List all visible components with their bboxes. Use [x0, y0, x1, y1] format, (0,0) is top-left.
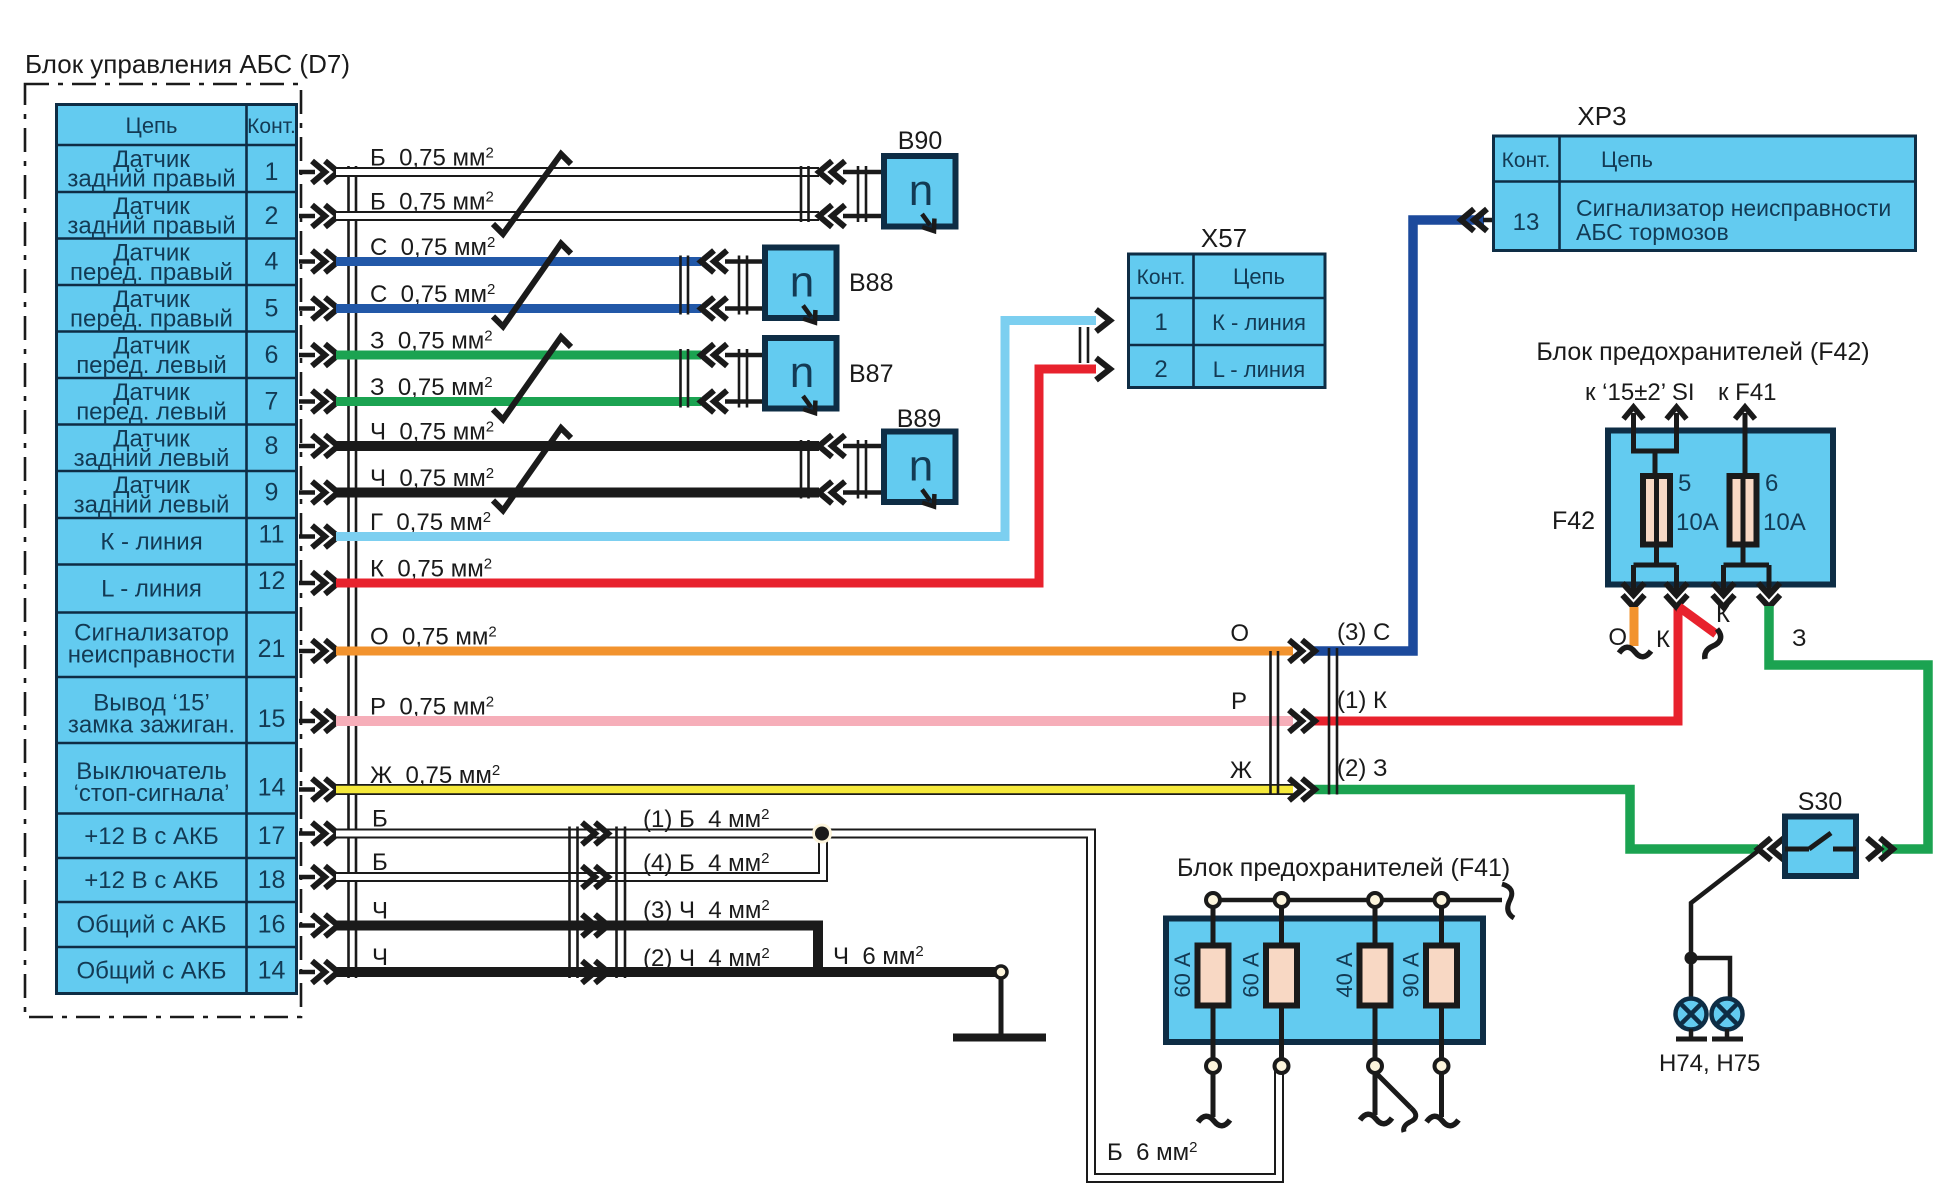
F42 top bracket fuse5 [1631, 449, 1679, 454]
svg-text:к F41: к F41 [1718, 379, 1777, 406]
D7 row Датчик pin 8 [74, 426, 279, 473]
svg-text:Ж: Ж [1230, 757, 1252, 784]
D7 row +12 В с АКБ pin 18 [84, 866, 285, 894]
output arrow pin row 8 [299, 490, 315, 495]
twisted pair mark B88 wires [493, 244, 571, 327]
wire from S30 to lamps [1691, 851, 1758, 958]
ABS control unit D7 dashed boundary [25, 84, 301, 1017]
wheel speed sensor B89 [801, 432, 956, 511]
F41 bottom terminal 4 [1435, 1059, 1449, 1073]
F42 down arrow out3 [1713, 595, 1735, 607]
F41 bottom terminal 1 [1206, 1059, 1220, 1073]
svg-text:перед. левый: перед. левый [76, 352, 227, 379]
svg-text:18: 18 [258, 866, 286, 894]
wire Б pin17 (1) [336, 834, 1279, 1179]
svg-text:Конт.: Конт. [247, 115, 296, 138]
svg-text:Конт.: Конт. [1137, 266, 1186, 289]
output arrow pin row 14 [299, 831, 315, 836]
svg-text:С 0,75 мм2: С 0,75 мм2 [370, 281, 495, 308]
F42 fuse box body [1608, 431, 1833, 585]
svg-text:L - линия: L - линия [101, 576, 202, 603]
D7 row Вывод &#8216;15&#8217; pin 15 [68, 690, 286, 739]
D7 row Датчик pin 7 [76, 379, 278, 426]
F42 up arrow 3 to F41 [1735, 407, 1755, 419]
svg-text:к ‘15±2’ SI: к ‘15±2’ SI [1585, 379, 1695, 406]
wire Р pin15 [336, 716, 1293, 726]
mid connector arrows row15 [1289, 710, 1302, 732]
output arrow pin row 17 [299, 970, 315, 975]
output arrow pin row 1 [299, 170, 315, 175]
svg-text:5: 5 [1678, 470, 1691, 497]
D7 row Датчик pin 5 [70, 286, 278, 333]
X57 connector bars [1079, 327, 1082, 363]
svg-text:H74, H75: H74, H75 [1659, 1050, 1760, 1077]
svg-text:14: 14 [258, 956, 286, 984]
D7 row L - линия pin 12 [101, 567, 285, 603]
svg-text:З: З [1792, 625, 1807, 652]
svg-text:21: 21 [258, 635, 286, 663]
svg-text:n: n [909, 442, 933, 491]
mid connector arrows row21 [1289, 640, 1302, 662]
svg-text:Б: Б [372, 806, 388, 833]
D7 row Общий с АКБ pin 14 [76, 956, 285, 984]
svg-text:Ч 6 мм2: Ч 6 мм2 [833, 943, 924, 970]
svg-text:n: n [790, 348, 814, 397]
harness bars mid-right rows14-17 [615, 827, 618, 979]
svg-text:(2) З: (2) З [1337, 755, 1388, 782]
mid arrow row 16 [582, 915, 595, 937]
svg-text:Блок предохранителей (F42): Блок предохранителей (F42) [1536, 338, 1869, 366]
F41 fuse3 branch diagonal [1377, 1074, 1411, 1108]
D7 row +12 В с АКБ pin 17 [84, 822, 285, 850]
svg-text:60 А: 60 А [1239, 952, 1264, 998]
svg-text:(3) Ч 4 мм2: (3) Ч 4 мм2 [643, 897, 770, 924]
wire Г K-line pin11 [336, 321, 1096, 537]
svg-text:Р: Р [1231, 688, 1247, 715]
harness connector bars at D7 outputs [347, 166, 350, 978]
output arrow pin row 7 [299, 444, 315, 449]
svg-text:Цепь: Цепь [126, 113, 178, 138]
output arrow pin row 4 [299, 306, 315, 311]
svg-text:10А: 10А [1763, 509, 1806, 536]
output arrow pin row 9 [299, 534, 315, 539]
D7 row Датчик pin 2 [67, 193, 278, 240]
svg-text:1: 1 [265, 158, 279, 186]
svg-text:5: 5 [265, 295, 279, 323]
svg-text:К - линия: К - линия [1212, 310, 1306, 335]
svg-text:Конт.: Конт. [1502, 149, 1551, 172]
svg-text:перед. правый: перед. правый [70, 306, 233, 333]
lamp branch junction dot [1685, 952, 1698, 965]
svg-text:11: 11 [259, 521, 285, 549]
svg-text:n: n [790, 258, 814, 307]
cut squiggle under orange stub [1619, 647, 1651, 657]
wire К L-line pin12 [336, 369, 1096, 583]
wire З pin7 to B87 [336, 397, 701, 406]
wheel speed sensor B88 [681, 248, 837, 327]
lamp H75 [1712, 999, 1743, 1030]
twisted pair mark B89 wires [493, 428, 571, 511]
svg-text:Х57: Х57 [1201, 223, 1247, 253]
F42 down arrow out4 [1758, 595, 1780, 607]
F42 bottom bracket fuse5 [1654, 544, 1659, 565]
svg-text:С 0,75 мм2: С 0,75 мм2 [370, 234, 495, 261]
X57 connector table [1129, 254, 1326, 388]
svg-text:Б: Б [372, 849, 388, 876]
svg-text:Ч: Ч [372, 898, 388, 925]
F41 fuse1 tail and cut [1211, 1073, 1216, 1117]
svg-text:О 0,75 мм2: О 0,75 мм2 [370, 624, 497, 651]
svg-text:4: 4 [265, 248, 279, 276]
output arrow pin row 16 [299, 923, 315, 928]
ground terminal circle [995, 966, 1007, 978]
output arrow pin row 11 [299, 649, 315, 654]
S30 switch contacts [1785, 847, 1809, 852]
svg-text:60 А: 60 А [1170, 952, 1195, 998]
svg-text:B87: B87 [849, 360, 893, 388]
wire Ч pin16 (3) [336, 926, 818, 973]
D7 row Датчик pin 4 [70, 240, 279, 287]
fuse F42-6 10A [1730, 476, 1757, 545]
svg-text:6: 6 [265, 341, 279, 369]
D7 row Выключатель pin 14 [74, 758, 286, 807]
wire Б pin1 to B90 [336, 167, 819, 177]
D7 row Общий с АКБ pin 16 [76, 911, 285, 939]
svg-text:ХР3: ХР3 [1577, 101, 1626, 131]
wire (2) З to S30 [1313, 790, 1758, 850]
svg-text:задний правый: задний правый [67, 166, 235, 193]
svg-text:9: 9 [265, 479, 279, 507]
svg-text:(1) К: (1) К [1337, 687, 1387, 714]
svg-text:14: 14 [258, 774, 286, 802]
lamp H75 ground [1725, 1029, 1730, 1039]
svg-text:2: 2 [1154, 356, 1167, 383]
svg-text:B90: B90 [898, 127, 942, 155]
output arrow pin row 5 [299, 353, 315, 358]
F42 down arrow out2 [1666, 595, 1688, 607]
svg-text:Блок управления АБС (D7): Блок управления АБС (D7) [25, 49, 350, 79]
wire Б pin18 (4) [336, 838, 823, 878]
svg-text:Б 6 мм2: Б 6 мм2 [1107, 1139, 1197, 1166]
svg-text:7: 7 [265, 388, 279, 416]
arrow into XP3 pin13 [1461, 209, 1474, 231]
svg-text:Г 0,75 мм2: Г 0,75 мм2 [370, 509, 491, 536]
output arrow pin row 13 [299, 787, 315, 792]
S30 switch box [1785, 817, 1856, 877]
F42 down arrow out1 [1623, 595, 1645, 607]
wire Ч pin8 to B89 [336, 441, 819, 451]
XP3 connector table [1494, 136, 1916, 251]
wire Ж pin14 [336, 784, 1293, 795]
mid arrow row 15 [582, 866, 595, 888]
svg-text:К - линия: К - линия [100, 528, 202, 555]
arrow into X57 pin2 [1096, 358, 1110, 380]
mid connector arrows row14 [1289, 779, 1302, 801]
fuse F41-1 60 А [1170, 907, 1229, 1059]
svg-text:неисправности: неисправности [68, 642, 235, 669]
wire С pin5 to B88 [336, 304, 701, 313]
svg-text:перед. правый: перед. правый [70, 259, 233, 286]
output arrow pin row 6 [299, 399, 315, 404]
wheel speed sensor B90 [801, 156, 956, 235]
mid arrow row 17 [582, 961, 595, 983]
wire Ч pin9 to B89 [336, 488, 819, 498]
svg-text:+12 В с АКБ: +12 В с АКБ [84, 823, 218, 850]
svg-text:задний правый: задний правый [67, 213, 235, 240]
F41 fuse4 tail and cut [1439, 1073, 1444, 1117]
D7 row Датчик pin 6 [76, 333, 278, 380]
junction dot Б wires [812, 824, 832, 844]
svg-text:замка зажиган.: замка зажиган. [68, 712, 235, 739]
output arrow pin row 15 [299, 875, 315, 880]
svg-text:B88: B88 [849, 269, 893, 297]
twisted pair mark B87 wires [493, 337, 571, 420]
svg-text:8: 8 [265, 432, 279, 460]
wire З pin6 to B87 [336, 351, 701, 360]
wheel speed sensor B87 [681, 338, 837, 417]
F42 up arrow 1 [1624, 407, 1644, 419]
svg-text:перед. левый: перед. левый [76, 399, 227, 426]
mid harness bars right [1328, 648, 1331, 795]
svg-text:n: n [909, 166, 933, 215]
output arrow pin row 2 [299, 214, 315, 219]
F41 bus terminal 4 [1435, 893, 1449, 907]
svg-text:6: 6 [1765, 470, 1778, 497]
svg-text:15: 15 [258, 705, 286, 733]
D7 pin table background [57, 105, 297, 994]
wire (3) С to XP3 riser [1313, 220, 1484, 651]
svg-text:S30: S30 [1798, 788, 1842, 816]
svg-text:задний левый: задний левый [74, 492, 230, 519]
fuse F41-2 60 А [1239, 907, 1298, 1059]
svg-text:+12 В с АКБ: +12 В с АКБ [84, 867, 218, 894]
svg-text:К: К [1656, 626, 1670, 653]
D7 table header labels [126, 113, 296, 138]
svg-text:К 0,75 мм2: К 0,75 мм2 [370, 556, 492, 583]
red branch diagonal fuse5 [1679, 607, 1716, 634]
F41 bus end curl [1502, 884, 1514, 918]
arrow into X57 pin1 [1096, 310, 1110, 332]
svg-text:(4) Б 4 мм2: (4) Б 4 мм2 [643, 850, 769, 877]
svg-text:О: О [1230, 620, 1249, 647]
F41 supply bus [1213, 898, 1502, 903]
wire Б pin2 to B90 [336, 211, 819, 221]
svg-text:Цепь: Цепь [1233, 264, 1285, 289]
svg-text:Ч: Ч [372, 944, 388, 971]
svg-text:З 0,75 мм2: З 0,75 мм2 [370, 374, 493, 401]
lamp H74 [1676, 999, 1707, 1030]
output arrow pin row 12 [299, 719, 315, 724]
svg-text:З 0,75 мм2: З 0,75 мм2 [370, 328, 493, 355]
fuse F42-5 10A [1643, 476, 1670, 545]
svg-text:(2) Ч 4 мм2: (2) Ч 4 мм2 [643, 945, 770, 972]
wire О pin21 [336, 647, 1293, 656]
svg-text:Сигнализатор неисправности: Сигнализатор неисправности [1576, 195, 1891, 221]
F42 bottom bracket fuse6 [1741, 544, 1746, 565]
wire С pin4 to B88 [336, 257, 701, 266]
D7 row Сигнализатор pin 21 [68, 620, 286, 669]
mid arrow row 14 [582, 823, 595, 845]
svg-text:1: 1 [1154, 309, 1167, 336]
D7 row Датчик pin 9 [74, 472, 279, 519]
arrow out of S30 right [1867, 838, 1880, 860]
svg-text:Блок предохранителей (F41): Блок предохранителей (F41) [1177, 854, 1510, 882]
D7 table grid lines [57, 105, 297, 994]
svg-text:‘стоп-сигнала’: ‘стоп-сигнала’ [74, 780, 230, 807]
F41 bus terminal 1 [1206, 893, 1220, 907]
twisted pair mark B90 wires [493, 154, 571, 234]
ground symbol [999, 978, 1004, 1035]
F42 up arrow 2 [1667, 407, 1687, 419]
output arrow pin row 3 [299, 259, 315, 264]
output arrow pin row 10 [299, 581, 315, 586]
svg-text:17: 17 [258, 822, 286, 850]
harness bars mid-left rows14-17 [568, 827, 571, 979]
svg-text:40 А: 40 А [1332, 952, 1357, 998]
svg-text:B89: B89 [897, 405, 941, 433]
fuse F41-3 40 А [1332, 907, 1391, 1059]
svg-text:90 А: 90 А [1399, 952, 1424, 998]
lamp branch wires [1691, 958, 1730, 998]
svg-text:16: 16 [258, 911, 286, 939]
F41 bus terminal 2 [1275, 893, 1289, 907]
lamp H74 ground [1689, 1029, 1694, 1039]
wire (1) К to F42 [1313, 606, 1678, 721]
svg-text:Цепь: Цепь [1601, 147, 1653, 172]
svg-text:задний левый: задний левый [74, 445, 230, 472]
cut hook on red branch [1705, 629, 1721, 659]
svg-text:12: 12 [258, 567, 286, 595]
svg-text:АБС тормозов: АБС тормозов [1576, 219, 1729, 245]
svg-text:10А: 10А [1676, 509, 1719, 536]
D7 row Датчик pin 1 [67, 146, 278, 193]
svg-text:Общий с АКБ: Общий с АКБ [76, 912, 226, 939]
wire З from F42 to S30 right [1769, 606, 1928, 849]
F41 bus terminal 3 [1368, 893, 1382, 907]
fuse F41-4 90 А [1399, 907, 1458, 1059]
D7 row К - линия pin 11 [100, 521, 284, 556]
svg-text:Общий с АКБ: Общий с АКБ [76, 957, 226, 984]
arrow into S30 left [1758, 838, 1771, 860]
wire Ч pin14 (2) [336, 967, 1001, 977]
F41 fuse3 tail and cut [1373, 1073, 1378, 1115]
svg-text:(3) С: (3) С [1337, 619, 1390, 646]
svg-text:13: 13 [1513, 209, 1540, 236]
svg-text:F42: F42 [1552, 507, 1595, 535]
F41 bottom terminal 3 [1368, 1059, 1382, 1073]
F41 fuse box body [1166, 919, 1483, 1043]
svg-text:L - линия: L - линия [1213, 357, 1305, 382]
svg-text:(1) Б 4 мм2: (1) Б 4 мм2 [643, 806, 769, 833]
orange stub О under F42 [1630, 607, 1639, 646]
mid harness bars left [1269, 651, 1272, 795]
svg-text:К: К [1716, 601, 1730, 628]
F41 bottom terminal 2 [1275, 1059, 1289, 1073]
svg-text:2: 2 [265, 202, 279, 230]
